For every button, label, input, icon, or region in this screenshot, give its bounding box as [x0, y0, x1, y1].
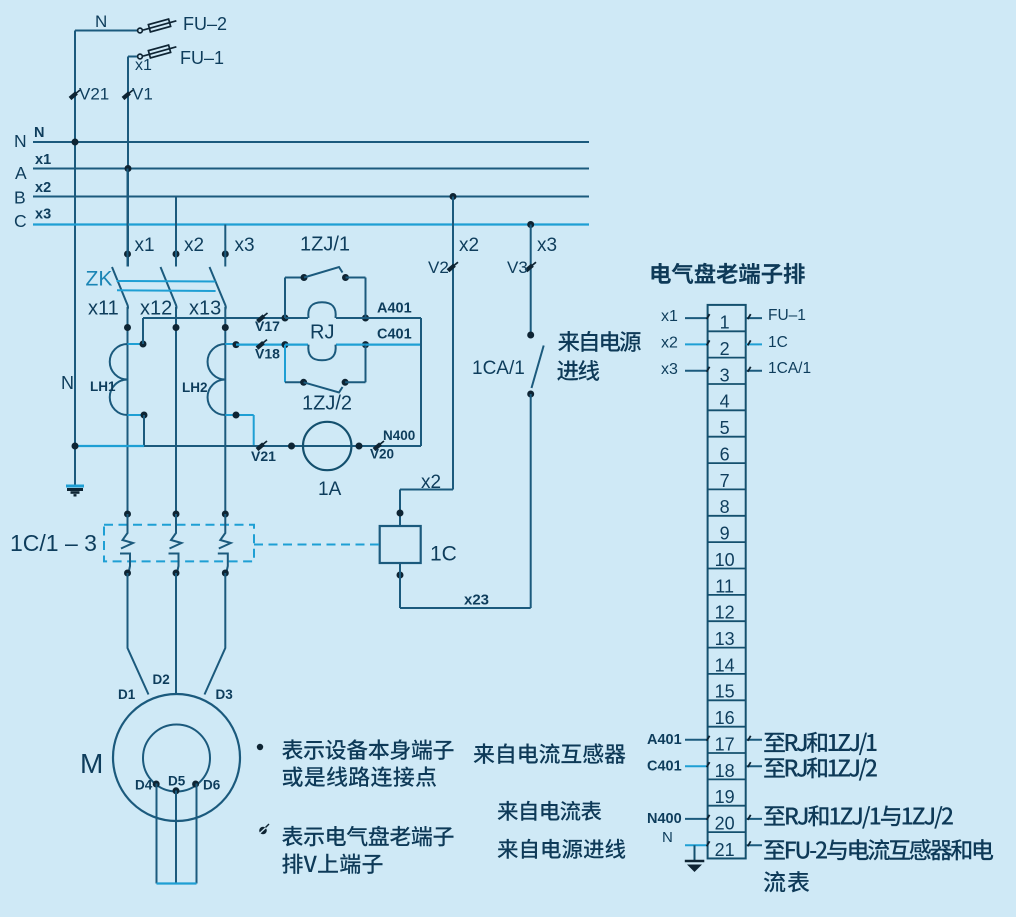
terminal slash V17	[258, 313, 268, 322]
legend line 2a	[282, 826, 453, 847]
svg-text:x2: x2	[421, 472, 441, 493]
svg-text:4: 4	[720, 392, 730, 412]
switch ZK blade 3	[210, 267, 226, 309]
wire A401 to right corner	[366, 317, 422, 319]
wire LH1 tap riser	[142, 318, 144, 344]
contact 1ZJ/2 branch left riser	[284, 345, 286, 383]
svg-text:11: 11	[715, 576, 734, 596]
terminal 3 left lead x3	[685, 370, 708, 372]
relay RJ heater top	[308, 302, 335, 318]
wire V3 vertical lower	[530, 394, 532, 608]
svg-text:C401: C401	[647, 759, 682, 775]
bus N	[33, 141, 589, 143]
svg-text:x1: x1	[35, 152, 51, 168]
terminal strip body	[708, 305, 746, 859]
svg-text:1A: 1A	[318, 479, 342, 500]
svg-text:N: N	[34, 125, 44, 141]
contact 1ZJ/1 branch right riser	[365, 278, 367, 319]
junction V1 on bus A	[125, 165, 132, 172]
terminal 21 right note line2	[764, 871, 810, 892]
motor tail wire right	[196, 784, 198, 884]
wire to motor D1	[128, 573, 149, 695]
LH1 top tap dot	[140, 341, 147, 348]
svg-text:x2: x2	[35, 180, 51, 196]
terminal 20 right note	[746, 818, 762, 820]
svg-text:LH1: LH1	[90, 379, 116, 394]
svg-text:1C: 1C	[768, 334, 788, 351]
switch ZK coupling bar 1	[117, 280, 216, 283]
wire below 1C coil	[399, 563, 401, 608]
contact 1ZJ/1 right dot	[342, 274, 349, 281]
terminal 18 left lead C401	[685, 765, 708, 767]
switch 1CA/1 upper dot	[527, 332, 534, 339]
contact 1ZJ/2 branch left lead	[285, 381, 304, 383]
node x3 dot	[222, 251, 229, 258]
motor M outer circle	[113, 694, 240, 821]
svg-text:x1: x1	[135, 57, 152, 74]
1C top terminal dot	[397, 510, 404, 517]
LH1 bottom tap dot	[141, 412, 148, 419]
svg-text:B: B	[14, 188, 26, 208]
svg-text:x13: x13	[189, 298, 221, 320]
fuse FU-2	[138, 17, 178, 34]
svg-text:FU–1: FU–1	[180, 48, 224, 68]
terminal slash V18	[257, 340, 267, 349]
legend line 1a	[282, 739, 453, 760]
contact 1C/2 upper dot	[173, 511, 180, 518]
wire phase A upper stub	[127, 169, 129, 267]
svg-text:15: 15	[715, 682, 735, 702]
svg-text:1CA/1: 1CA/1	[768, 360, 811, 377]
svg-text:N: N	[662, 829, 673, 846]
svg-text:1CA/1: 1CA/1	[472, 358, 525, 379]
svg-text:N: N	[95, 12, 107, 31]
wire V21 vertical	[74, 31, 76, 486]
wire RJ bottom line right segment	[336, 344, 366, 346]
wire V2 vertical	[452, 197, 454, 490]
LH2 top tap dot	[233, 341, 240, 348]
wire RJ bottom line left segment	[285, 344, 308, 346]
wire x23 horizontal	[400, 607, 531, 609]
svg-text:x1: x1	[135, 235, 155, 256]
svg-text:D2: D2	[153, 672, 170, 687]
1C bottom terminal dot	[397, 572, 404, 579]
ground symbol at terminal 21	[685, 845, 705, 872]
legend slash symbol	[259, 824, 269, 834]
wire C401 to right corner	[366, 344, 422, 346]
terminal 21 right note	[746, 844, 762, 846]
junction x2 on bus B	[450, 193, 457, 200]
current transformer LH1 winding	[110, 344, 128, 415]
contact 1ZJ/2 right dot	[342, 379, 349, 386]
wire phase C upper stub	[224, 225, 226, 267]
bus C	[33, 223, 589, 225]
wire neutral horizontal left	[75, 445, 144, 447]
wire N top horizontal to FU-2	[75, 30, 137, 32]
LH1 top tap wire	[128, 343, 144, 345]
terminal strip title	[651, 263, 804, 284]
svg-text:12: 12	[715, 603, 735, 623]
wire RJ top line left segment	[285, 317, 308, 319]
terminal slash V3	[526, 262, 536, 271]
contact 1C/1 lower hook	[120, 554, 130, 574]
svg-text:V3: V3	[507, 258, 528, 277]
terminal 20 left lead N400	[685, 818, 708, 820]
contact 1ZJ/2 blade	[304, 382, 343, 392]
wire C401 horizontal from LH2	[236, 344, 285, 346]
contact 1C/2 lower dot	[173, 570, 180, 577]
note from current transformer	[474, 743, 626, 763]
contactor contacts dashed box	[104, 525, 254, 562]
contact 1C/1 blade	[121, 514, 133, 549]
svg-text:16: 16	[715, 708, 735, 728]
svg-text:x11: x11	[88, 298, 119, 320]
svg-text:18: 18	[715, 761, 735, 781]
legend line 2b	[282, 853, 382, 873]
junction x3 on bus C	[527, 221, 534, 228]
terminal slash V2	[448, 262, 458, 271]
svg-text:C: C	[14, 211, 27, 231]
svg-text:3: 3	[720, 365, 730, 385]
contact 1ZJ/2 branch right lead	[345, 381, 365, 383]
coil right terminal dot	[356, 443, 363, 450]
contact 1ZJ/2 left dot	[300, 379, 307, 386]
fuse FU-1	[138, 43, 178, 60]
terminal slash V1	[123, 90, 133, 99]
terminal 17 left lead A401	[685, 739, 708, 741]
svg-text:x2: x2	[459, 235, 479, 256]
svg-text:2: 2	[720, 339, 730, 359]
svg-text:x2: x2	[184, 235, 204, 256]
svg-text:V17: V17	[255, 318, 280, 334]
wire right vertical A401-N400	[420, 318, 422, 446]
svg-text:D3: D3	[216, 687, 234, 702]
motor terminal D4 dot	[153, 781, 160, 788]
junction RJ left bottom	[282, 341, 289, 348]
switch 1CA/1 blade	[532, 346, 544, 389]
svg-text:D1: D1	[118, 687, 136, 702]
LH2 top tap wire	[225, 343, 236, 345]
svg-text:1: 1	[720, 313, 730, 333]
wire to motor D3	[205, 573, 226, 695]
LH2 bottom tap wire	[225, 414, 253, 416]
svg-text:D5: D5	[168, 774, 186, 789]
LH1 bottom tap wire	[128, 414, 145, 416]
svg-text:N: N	[14, 131, 27, 151]
terminal 1 left lead x1	[685, 317, 708, 319]
svg-text:20: 20	[715, 814, 735, 834]
terminal numbers	[715, 313, 735, 860]
contact 1ZJ/1 branch left lead	[285, 277, 304, 279]
svg-text:V21: V21	[79, 85, 109, 104]
svg-text:ZK: ZK	[86, 268, 113, 291]
motor terminal D5 dot	[173, 787, 180, 794]
svg-text:1ZJ/2: 1ZJ/2	[302, 393, 352, 415]
svg-text:x1: x1	[661, 308, 678, 325]
svg-text:A: A	[15, 163, 27, 183]
wire V1 vertical upper	[127, 57, 129, 267]
junction x13 dot	[222, 324, 229, 331]
svg-text:14: 14	[715, 655, 735, 675]
contactor coil 1C box	[380, 526, 421, 563]
svg-text:V1: V1	[132, 85, 153, 104]
svg-text:N400: N400	[383, 428, 415, 443]
svg-text:x12: x12	[140, 298, 172, 320]
junction x11 dot	[124, 324, 131, 331]
junction neutral-V21 dot	[72, 443, 79, 450]
wire neutral right of coil	[304, 445, 421, 447]
terminal 1 right lead FU-1	[746, 317, 762, 319]
svg-text:1C: 1C	[430, 543, 457, 566]
svg-text:1ZJ/1: 1ZJ/1	[300, 234, 350, 256]
junction RJ right top	[362, 315, 369, 322]
wire LH2 tap down to neutral	[253, 415, 255, 446]
wire phase C below ZK	[224, 307, 226, 514]
contact 1C/1 lower dot	[124, 570, 131, 577]
svg-text:LH2: LH2	[182, 380, 208, 395]
wire to motor D2	[175, 573, 177, 695]
wire down to 1C coil	[399, 490, 401, 527]
svg-text:V21: V21	[251, 448, 276, 464]
junction V21 on bus N	[72, 139, 79, 146]
terminal 21 left lead N	[685, 844, 708, 846]
svg-text:FU–1: FU–1	[768, 307, 806, 324]
svg-text:D4: D4	[135, 778, 153, 793]
wire phase B upper stub	[175, 197, 177, 267]
current transformer LH2 winding	[208, 344, 226, 415]
svg-text:10: 10	[715, 550, 735, 570]
svg-text:x3: x3	[537, 235, 557, 256]
wire stub V1 to FU-1	[128, 56, 137, 58]
svg-text:9: 9	[720, 524, 730, 544]
terminal 17 right note	[746, 739, 762, 741]
svg-text:21: 21	[715, 840, 735, 860]
svg-text:5: 5	[720, 418, 730, 438]
svg-text:V2: V2	[428, 258, 449, 277]
contact 1C/3 lower hook	[218, 554, 228, 574]
switch ZK blade 2	[161, 267, 177, 309]
switch 1CA/1 lower dot	[527, 391, 534, 398]
junction RJ right bottom	[362, 341, 369, 348]
svg-text:x2: x2	[661, 335, 678, 352]
svg-text:x3: x3	[35, 207, 51, 223]
legend line 1b	[283, 766, 436, 787]
junction RJ left top	[282, 315, 289, 322]
svg-text:7: 7	[720, 471, 730, 491]
svg-text:x3: x3	[235, 235, 255, 256]
contact 1ZJ/1 blade	[304, 267, 343, 278]
svg-text:1C/1 – 3: 1C/1 – 3	[10, 530, 97, 556]
svg-text:N400: N400	[647, 811, 682, 827]
node x2 dot	[173, 251, 180, 258]
LH2 bottom tap dot	[233, 412, 240, 419]
svg-text:x23: x23	[464, 592, 489, 609]
svg-text:V18: V18	[255, 346, 280, 362]
bus A	[33, 168, 589, 170]
contact 1C/2 lower hook	[169, 554, 179, 574]
contact 1ZJ/1 left dot	[301, 274, 308, 281]
motor tail wire middle	[175, 791, 177, 884]
wire phase A below ZK	[127, 307, 129, 514]
motor tail wire left	[156, 784, 158, 884]
label laizi dianyuan	[558, 331, 641, 352]
contact 1ZJ/1 branch right lead	[346, 277, 366, 279]
terminal slash V21 top	[70, 90, 80, 99]
note from ammeter	[498, 801, 602, 821]
terminal slash V20	[374, 441, 384, 450]
svg-text:A401: A401	[647, 732, 682, 748]
svg-text:17: 17	[715, 734, 735, 754]
contact 1C/3 blade	[219, 514, 231, 549]
contact 1ZJ/2 branch right riser	[365, 345, 367, 383]
wire phase B below ZK	[175, 307, 177, 514]
svg-text:D6: D6	[203, 778, 221, 793]
motor M inner circle	[143, 725, 210, 792]
contact 1C/3 lower dot	[222, 570, 229, 577]
terminal 2 left lead x2	[685, 343, 708, 345]
svg-text:RJ: RJ	[310, 322, 334, 344]
terminal 3 right lead 1CA/1	[746, 370, 762, 372]
wire A401 horizontal	[143, 317, 285, 319]
legend bullet dot	[257, 744, 263, 750]
node x1 dot	[124, 251, 131, 258]
svg-text:A401: A401	[377, 301, 412, 317]
wire LH1 tap down to neutral	[143, 415, 145, 446]
note from supply line	[498, 839, 626, 859]
switch ZK coupling bar 2	[117, 289, 216, 292]
terminal slash V21 mid	[257, 441, 267, 450]
svg-text:V20: V20	[370, 447, 394, 462]
dashed link to 1C coil	[254, 544, 380, 546]
contact 1C/1 upper dot	[124, 511, 131, 518]
wire RJ top line right segment	[336, 317, 366, 319]
terminal 18 right note	[746, 765, 762, 767]
contact 1C/3 upper dot	[222, 511, 229, 518]
ground symbol left	[66, 486, 84, 495]
svg-text:6: 6	[720, 445, 730, 465]
svg-text:M: M	[80, 748, 103, 779]
switch ZK blade 1	[112, 267, 128, 309]
contact 1ZJ/1 branch left riser	[284, 278, 286, 319]
coil 1ZJ/2 left terminal dot	[288, 443, 295, 450]
wire x2 corner horizontal	[400, 489, 453, 491]
relay coil 1ZJ/2 1A circle	[303, 422, 351, 470]
relay RJ heater bottom	[308, 345, 335, 361]
svg-text:8: 8	[720, 497, 730, 517]
bus B	[33, 196, 589, 198]
svg-text:x3: x3	[661, 361, 678, 378]
motor terminal D6 dot	[192, 781, 199, 788]
contact 1C/2 blade	[170, 514, 182, 549]
svg-text:N: N	[61, 373, 74, 393]
svg-text:19: 19	[715, 787, 735, 807]
wire V3 vertical upper	[530, 225, 532, 336]
motor tail bottom bar	[157, 882, 197, 884]
svg-text:C401: C401	[377, 327, 412, 343]
svg-text:FU–2: FU–2	[183, 14, 227, 34]
wire neutral horizontal mid	[144, 445, 304, 447]
junction x12 dot	[173, 324, 180, 331]
terminal 2 right lead 1C	[746, 343, 762, 345]
label jinxian	[557, 360, 599, 381]
svg-text:13: 13	[715, 629, 735, 649]
